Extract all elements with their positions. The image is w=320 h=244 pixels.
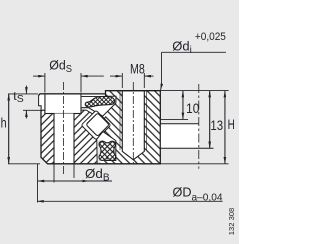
svg-text:h: h	[1, 115, 7, 130]
bore visible far-side (white rect right of body)	[161, 124, 199, 149]
svg-text:H: H	[228, 117, 235, 132]
M8 hole centerline	[132, 82, 134, 166]
dimension 13	[209, 91, 211, 149]
chamfer background cut at bottom-left	[40, 157, 48, 164]
seal strip lip (left step)	[39, 94, 45, 110]
outer ring (right, hatched \)	[106, 91, 161, 164]
thread lines	[119, 91, 121, 150]
dimension H	[160, 91, 228, 164]
bottom seal recess	[97, 132, 116, 164]
dimension M8	[110, 73, 154, 88]
outer ring nose between pocket and bottom seal groove	[98, 126, 117, 142]
svg-text:ØdS: ØdS	[49, 58, 72, 75]
ring split gap channel (left of pocket)	[81, 108, 103, 119]
d_S hole centerline	[63, 82, 65, 174]
svg-text:132 308: 132 308	[227, 208, 236, 235]
step line top of outer ring at seal	[105, 91, 107, 97]
dimension h	[8, 94, 40, 164]
svg-text:tS: tS	[13, 89, 24, 105]
svg-text:Ødi: Ødi	[172, 38, 192, 55]
dimension ØD_a -0,04	[37, 200, 223, 202]
inner ring (left, hatched /)	[41, 94, 106, 164]
top rubber seal (cross hatched comma)	[85, 96, 115, 106]
seal cover strip	[81, 94, 106, 97]
svg-text:13: 13	[210, 118, 223, 133]
svg-text:ØDa–0,04: ØDa–0,04	[173, 184, 223, 203]
dimension 10	[160, 91, 228, 120]
svg-text:10: 10	[186, 101, 200, 116]
svg-text:M8: M8	[130, 62, 145, 77]
svg-text:+0,025: +0,025	[195, 31, 226, 43]
screw through hole d_S	[54, 114, 74, 164]
gap gray sliver bottom	[98, 140, 100, 163]
roller pocket (outer diamond)	[81, 110, 111, 140]
white page margin right	[239, 0, 250, 244]
body outline	[39, 91, 161, 164]
dimension Ød_S	[33, 73, 104, 93]
svg-text:ØdB: ØdB	[85, 166, 110, 183]
dimension Ød_i +0,025 (leader)	[161, 52, 227, 90]
dimension t_S	[23, 86, 45, 119]
top seal recess (white pocket under cover strip)	[81, 96, 116, 116]
bearing axis centerline	[198, 84, 200, 169]
roller (diamond)	[86, 113, 109, 136]
screw hole counterbore band (white)	[45, 94, 81, 114]
outer ring material below bottom seal groove	[99, 161, 105, 164]
bottom X-seal (cross hatched)	[99, 141, 116, 160]
M8 tapped hole (white with drill cone)	[122, 91, 144, 160]
dimension Ød_B	[38, 164, 113, 203]
